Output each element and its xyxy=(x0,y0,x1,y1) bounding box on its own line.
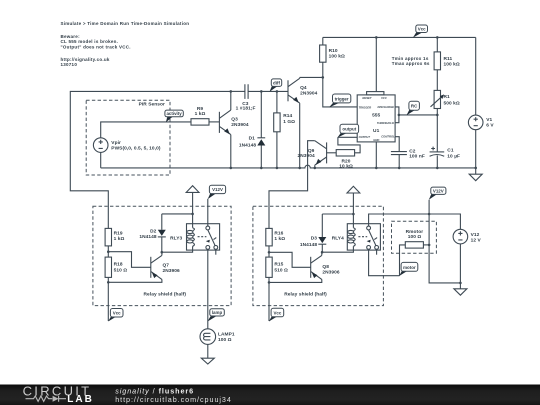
wire: Q3 collector riser xyxy=(230,91,232,110)
wire: R16 to R15 xyxy=(268,246,270,257)
wire: C3 left lead xyxy=(231,90,245,92)
node junction Q7 base node xyxy=(107,250,110,253)
wire: discharge-threshold bracket xyxy=(395,107,399,123)
svg-text:Vcc: Vcc xyxy=(113,311,121,316)
svg-text:100 Ω: 100 Ω xyxy=(218,337,232,343)
svg-text:10 µF: 10 µF xyxy=(447,153,460,159)
power flag V12V arrow (right) xyxy=(347,186,360,214)
resistor R18 xyxy=(105,257,127,277)
svg-text:Q7: Q7 xyxy=(163,263,170,269)
node junction coil riser / power arrow xyxy=(352,213,355,216)
ground symbol lamp xyxy=(201,358,214,364)
svg-text:Q9: Q9 xyxy=(308,148,315,154)
transistor Q7 2N3906 xyxy=(151,255,180,279)
node flag Vcc (left shield) xyxy=(108,309,123,322)
wire: 555 GND riser xyxy=(375,142,377,168)
svg-text:lamp: lamp xyxy=(212,310,223,315)
wire: Q4 emitter riser to ground rail xyxy=(299,103,301,168)
wire: V12 bottom to ground xyxy=(459,244,461,289)
header note: simulate instructions xyxy=(61,21,190,67)
svg-text:10 kΩ: 10 kΩ xyxy=(339,163,353,169)
svg-text:2N3904: 2N3904 xyxy=(300,91,318,97)
svg-text:Tmin approx 1s: Tmin approx 1s xyxy=(392,56,429,61)
wire: coil bottom to Q7 collector node xyxy=(162,246,193,252)
node junction D1 top xyxy=(260,90,263,93)
svg-text:1 kΩ: 1 kΩ xyxy=(274,236,285,242)
diode D2 1N4148 xyxy=(139,214,165,252)
svg-text:1N4148: 1N4148 xyxy=(239,143,257,149)
svg-text:TRIGGER: TRIGGER xyxy=(359,105,372,109)
diode D1 1N4148 xyxy=(239,91,265,167)
resistor R9 xyxy=(191,106,209,125)
wire: lamp to ground xyxy=(207,344,209,358)
svg-text:500 kΩ: 500 kΩ xyxy=(444,100,460,106)
wire: R11 riser from rail xyxy=(436,37,438,52)
node flag lamp xyxy=(208,309,225,322)
wire: R11 to R1 xyxy=(436,70,438,91)
svg-text:1 1 µF#181;F: 1 1 µF#181;F xyxy=(236,105,256,111)
svg-text:2N3906: 2N3906 xyxy=(322,270,340,276)
node flag trigger xyxy=(329,94,351,108)
wire: Rmotor left lead xyxy=(400,245,406,276)
svg-text:130710: 130710 xyxy=(61,62,78,67)
svg-text:R10: R10 xyxy=(329,48,338,54)
node junction V12 bottom / motor return xyxy=(459,282,462,285)
svg-text:Relay shield (half): Relay shield (half) xyxy=(144,291,187,297)
wire: D3 top to coil riser xyxy=(322,213,353,215)
svg-text:RC: RC xyxy=(411,104,418,109)
dashed box Relay shield left xyxy=(93,206,231,305)
svg-text:Simulate > Time Domain Run Tim: Simulate > Time Domain Run Time-Domain S… xyxy=(61,21,190,26)
wire: Q9 collector to lower section xyxy=(269,141,315,229)
svg-text:R16: R16 xyxy=(274,230,283,236)
node flag Vcc (top rail) xyxy=(413,25,428,38)
resistor R15 xyxy=(266,257,288,277)
wire: Q4 collector tap to R10 riser xyxy=(300,76,323,78)
svg-text:D3: D3 xyxy=(311,236,318,242)
wire: diff node wire C3 to Q4 base xyxy=(248,90,288,92)
wire: diff feedback loop (top left) xyxy=(70,91,231,228)
svg-text:U1: U1 xyxy=(373,128,380,134)
relay RLY3 xyxy=(170,214,220,255)
wire: relay switch common riser to V12V flag xyxy=(207,199,209,226)
svg-text:Q8: Q8 xyxy=(322,264,329,270)
svg-text:R11: R11 xyxy=(444,56,453,62)
node flag activity xyxy=(165,110,183,122)
node junction coil top / power arrow xyxy=(191,213,194,216)
svg-text:DISCHARGE: DISCHARGE xyxy=(377,105,394,109)
transistor Q9 2N3904 (mirrored) xyxy=(298,141,327,165)
svg-text:Q4: Q4 xyxy=(300,85,307,91)
svg-text:RLY4: RLY4 xyxy=(332,235,344,241)
wire: relay NO contact to motor node xyxy=(369,249,400,275)
svg-text:1 kΩ: 1 kΩ xyxy=(195,111,206,117)
power flag V12V arrow (left) xyxy=(186,186,199,214)
svg-text:RESET: RESET xyxy=(362,96,371,100)
svg-text:1 kΩ: 1 kΩ xyxy=(114,236,125,242)
svg-text:12 V: 12 V xyxy=(471,237,482,243)
svg-text:6 V: 6 V xyxy=(486,123,494,129)
wire: output pin wire xyxy=(338,136,357,138)
wire: R18 bottom to Vcc flag xyxy=(107,277,109,321)
svg-text:C1: C1 xyxy=(447,148,454,154)
wire: coil bottom joins D3 node xyxy=(322,246,353,252)
svg-text:D1: D1 xyxy=(249,136,256,142)
resistor R16 xyxy=(266,228,286,246)
node junction D2 / Q7 collector / coil xyxy=(161,251,164,254)
node flag Vcc (right shield) xyxy=(269,308,284,321)
svg-text:100 Ω: 100 Ω xyxy=(408,234,422,240)
svg-text:diff: diff xyxy=(273,80,280,85)
svg-text:R18: R18 xyxy=(114,262,123,268)
wire: Rmotor right lead xyxy=(423,244,429,246)
wire: R9 to Q3 base xyxy=(209,121,219,123)
footer text xyxy=(115,387,232,404)
voltage source Vpir xyxy=(93,138,160,153)
svg-text:PIR Sensor: PIR Sensor xyxy=(139,101,165,107)
wire: D2 top to coil top xyxy=(162,213,193,215)
svg-text:2N3904: 2N3904 xyxy=(298,153,316,159)
svg-text:100 kΩ: 100 kΩ xyxy=(444,62,460,68)
resistor R20 xyxy=(336,150,354,170)
node junctions on ground rail xyxy=(230,167,233,170)
capacitor C2 xyxy=(391,148,425,159)
svg-text:output: output xyxy=(342,127,356,132)
svg-text:1 GΩ: 1 GΩ xyxy=(283,119,295,125)
node flag output xyxy=(337,124,358,137)
node junction Q3 collector / C3 xyxy=(230,90,233,93)
wire: Q7 collector to D2 node xyxy=(161,252,163,255)
node junction Rmotor right xyxy=(428,244,431,247)
node junction R14 top xyxy=(276,90,279,93)
potentiometer R1 xyxy=(431,90,460,108)
resistor Rmotor xyxy=(405,229,423,248)
node junction Q8 base node xyxy=(268,251,271,254)
op-amp/timer U1 555 box xyxy=(357,92,395,142)
capacitor C3 xyxy=(236,84,256,111)
wire: R10 bottom to trigger pin xyxy=(323,62,357,107)
svg-text:R19: R19 xyxy=(114,230,123,236)
svg-text:510 Ω: 510 Ω xyxy=(114,267,128,273)
diode D3 1N4148 xyxy=(300,214,326,252)
svg-text:D2: D2 xyxy=(150,228,157,234)
transistor Q4 2N3904 xyxy=(288,78,318,103)
svg-text:1N4148: 1N4148 xyxy=(139,234,157,240)
ground symbol V12 xyxy=(454,289,467,295)
node junction Q8 emitter / Vcc xyxy=(268,281,271,284)
svg-text:Vcc: Vcc xyxy=(273,310,281,315)
resistor R19 xyxy=(105,228,124,246)
wire: Q7 base wire xyxy=(108,252,151,268)
node junction Vcc rail / R11 xyxy=(436,36,439,39)
node flag V12V (left) xyxy=(208,185,226,199)
svg-text:2N3904: 2N3904 xyxy=(231,122,249,128)
wire: R15 bottom to Vcc flag xyxy=(268,277,270,321)
capacitor C1 polarized xyxy=(430,147,460,160)
resistor R11 xyxy=(434,52,460,70)
wire: R19 to R18 xyxy=(107,246,109,257)
svg-text:trigger: trigger xyxy=(335,96,349,101)
transistor Q8 2N3906 xyxy=(311,255,340,279)
wire: Q9 base to R20 xyxy=(327,152,337,154)
svg-text:R15: R15 xyxy=(274,262,283,268)
relay RLY4 xyxy=(332,214,381,255)
node junction Vcc rail / 555 xyxy=(375,36,378,39)
wire: C2 bottom to ground rail xyxy=(398,155,400,168)
dashed box Relay shield right xyxy=(253,206,384,305)
footer bar xyxy=(0,385,540,405)
lamp LAMP1 xyxy=(200,329,235,345)
svg-text:V1: V1 xyxy=(486,117,492,123)
svg-text:V12V: V12V xyxy=(433,189,444,194)
wire: V1 bottom to ground rail xyxy=(475,130,477,168)
CircuitLab logo xyxy=(23,384,94,405)
svg-text:LAMP1: LAMP1 xyxy=(218,331,235,337)
wire: relay switch common riser to V12V node xyxy=(369,214,461,229)
svg-text:GND: GND xyxy=(373,138,379,142)
wire: RC wire to R1 riser xyxy=(399,114,437,116)
wire: 555 VCC riser xyxy=(375,37,377,91)
voltage source V12 xyxy=(453,229,481,244)
wire: Vcc top rail xyxy=(323,36,476,38)
svg-text:LAB: LAB xyxy=(67,394,94,405)
wire: R1 bottom through RC node down to C1 xyxy=(436,109,438,152)
wire: relay NO contact down to lamp xyxy=(207,249,209,328)
svg-text:555: 555 xyxy=(372,113,380,119)
svg-text:C2: C2 xyxy=(409,148,416,154)
node flag diff xyxy=(270,79,282,92)
wire: R20 right to output loop xyxy=(338,137,360,153)
svg-text:"Output" does not track VCC.: "Output" does not track VCC. xyxy=(61,44,131,49)
wire: V12V flag riser down through Rmotor right to motor return xyxy=(429,200,460,283)
svg-text:RLY3: RLY3 xyxy=(170,235,182,241)
node flag RC xyxy=(407,101,420,115)
node junction RC / R1 riser xyxy=(436,114,439,117)
svg-text:http://circuitlab.com/cpuuj34: http://circuitlab.com/cpuuj34 xyxy=(115,395,232,404)
ground symbol main xyxy=(469,168,482,181)
svg-text:Rmotor: Rmotor xyxy=(406,229,424,235)
svg-text:Vpir: Vpir xyxy=(111,140,121,146)
svg-text:OUTPUT: OUTPUT xyxy=(359,135,371,139)
note: Tmin/Tmax annotation xyxy=(392,56,430,66)
wire: V1 riser top xyxy=(475,37,477,115)
svg-text:Relay shield (half): Relay shield (half) xyxy=(284,291,327,297)
dashed box Rmotor xyxy=(392,221,437,253)
resistor R14 xyxy=(274,91,295,167)
svg-text:R9: R9 xyxy=(197,106,204,112)
svg-text:R1: R1 xyxy=(444,94,451,100)
svg-text:R14: R14 xyxy=(283,113,292,119)
node flag motor xyxy=(399,262,418,276)
wire: control pin to C2 xyxy=(395,137,399,152)
svg-text:THRESHOLD: THRESHOLD xyxy=(377,121,394,125)
wire: R10 top stub xyxy=(322,37,324,45)
svg-text:510 Ω: 510 Ω xyxy=(274,267,288,273)
svg-text:motor: motor xyxy=(403,265,416,270)
wire: Q7 emitter return xyxy=(108,279,162,282)
node junction V12V riser xyxy=(428,213,431,216)
wire: Q8 emitter return xyxy=(269,279,322,282)
svg-text:PWS(0,0, 0.5, 5, 10,0): PWS(0,0, 0.5, 5, 10,0) xyxy=(111,146,161,152)
wire: main ground rail with hop over Q9 collector riser xyxy=(101,165,476,168)
resistor R10 xyxy=(320,45,345,62)
node junction discharge bracket xyxy=(398,114,401,117)
wire: C1 bottom to ground rail xyxy=(436,155,438,168)
svg-text:V12: V12 xyxy=(471,232,480,238)
node junction Q7 emitter / Vcc xyxy=(107,281,110,284)
svg-text:VCC: VCC xyxy=(381,96,388,100)
svg-text:CONTROL: CONTROL xyxy=(381,135,395,139)
wire: Q8 base wire xyxy=(269,252,311,267)
wire: Q8 collector to D3 node xyxy=(321,252,323,255)
dashed box PIR Sensor xyxy=(86,100,170,175)
svg-text:V12V: V12V xyxy=(212,187,223,192)
wire: Q4 collector corner xyxy=(299,76,301,79)
svg-text:100 nF: 100 nF xyxy=(409,154,425,160)
transistor Q3 2N3904 xyxy=(219,110,248,135)
svg-text:Q3: Q3 xyxy=(231,117,238,123)
svg-text:activity: activity xyxy=(166,111,182,116)
node flag V12V (right) xyxy=(429,187,446,200)
wire: Q9 emitter stub to rail xyxy=(314,165,316,168)
node junction R10/Q4 xyxy=(322,76,325,79)
node junction D3 / Q8 collector / coil xyxy=(321,251,324,254)
svg-text:100 kΩ: 100 kΩ xyxy=(329,53,345,59)
svg-text:Tmax approx 6s: Tmax approx 6s xyxy=(392,61,430,66)
svg-text:Vcc: Vcc xyxy=(418,26,426,31)
wire: Vpir top to R9 xyxy=(101,122,191,138)
svg-text:2N3906: 2N3906 xyxy=(163,268,181,274)
svg-text:1N4148: 1N4148 xyxy=(300,242,318,248)
wire: Vpir bottom to ground rail xyxy=(100,152,102,168)
wire: Q3 emitter to ground rail xyxy=(230,135,232,168)
voltage source V1 6V xyxy=(468,115,494,130)
